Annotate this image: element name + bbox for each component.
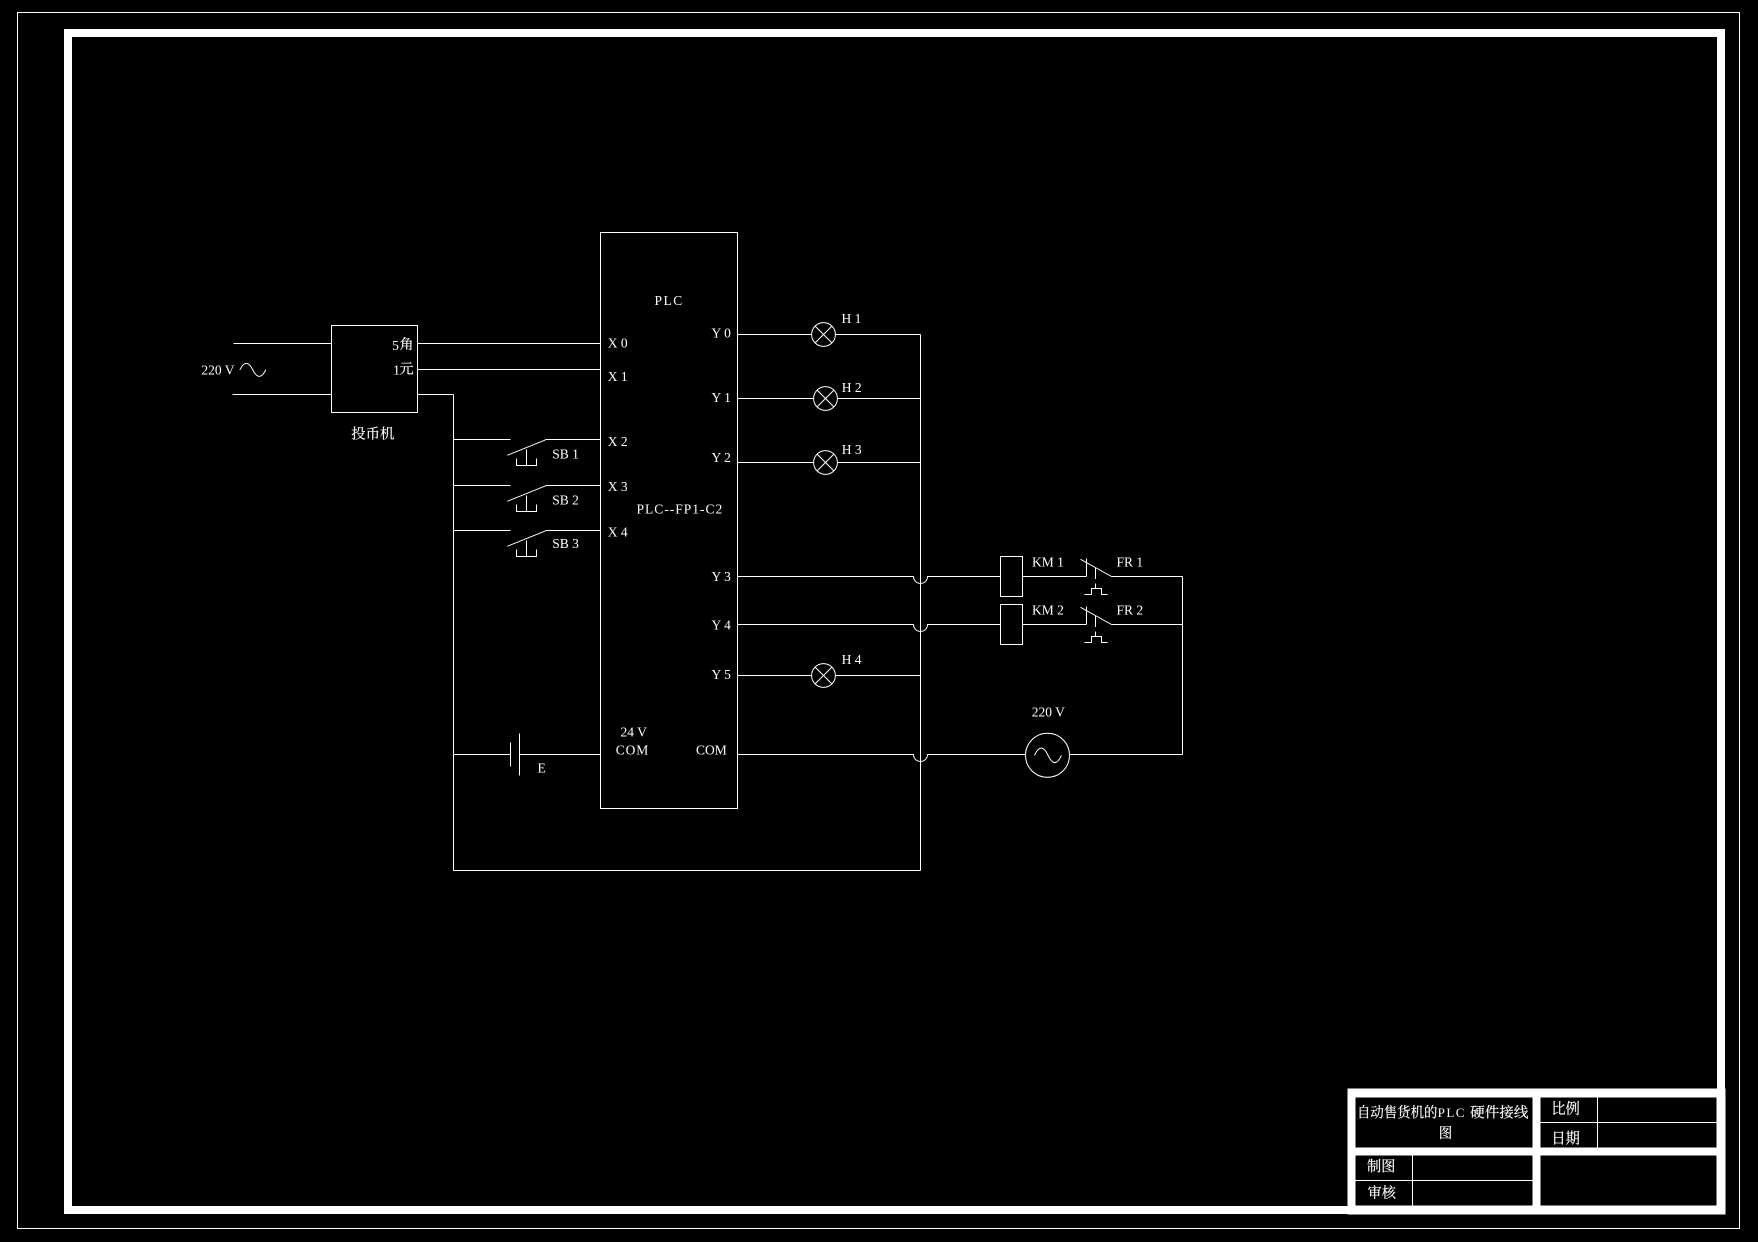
scale/date table (1541, 1098, 1717, 1148)
svg-text:Y 4: Y 4 (712, 617, 732, 632)
empty info cell (1541, 1156, 1717, 1206)
svg-text:H 3: H 3 (842, 442, 862, 457)
svg-text:SB 2: SB 2 (552, 492, 579, 507)
wire 1元 output to pin X1 (418, 369, 601, 371)
wire left bus to battery (454, 754, 511, 756)
battery E plates (511, 734, 520, 776)
svg-text:H 2: H 2 (842, 380, 862, 395)
wire coin machine bottom to left bus (418, 394, 454, 396)
svg-text:COM: COM (696, 743, 727, 758)
svg-text:KM 1: KM 1 (1032, 554, 1064, 569)
svg-text:5: 5 (392, 338, 399, 353)
label 审核 (1368, 1185, 1395, 1199)
sine symbol (left mains source) (240, 363, 266, 376)
contactor coil KM2 (1001, 605, 1023, 645)
wire FR1 to right rail (1112, 576, 1183, 578)
svg-text:Y 2: Y 2 (712, 450, 731, 465)
svg-text:H 4: H 4 (842, 652, 862, 667)
wire Y3 to contactor KM1 (hops right bus) (738, 577, 1001, 584)
drawn/checked table (1356, 1156, 1533, 1206)
wire AC source to right rail (1070, 754, 1183, 756)
svg-text:PLC: PLC (1438, 1105, 1466, 1120)
right rail wire FR1/FR2 down to AC line (1182, 577, 1184, 755)
coin machine box 投币机 (332, 326, 418, 413)
wire FR2 to right rail (1112, 624, 1183, 626)
svg-text:Y 0: Y 0 (712, 326, 732, 341)
left vertical bus wire (453, 395, 455, 871)
pushbutton switch SB1 (454, 440, 601, 466)
label 比例 (1553, 1101, 1579, 1115)
wire Y2 to lamp H3 (738, 462, 814, 464)
svg-text:E: E (538, 761, 546, 776)
svg-text:X 0: X 0 (608, 336, 628, 351)
svg-text:PLC--FP1-C2: PLC--FP1-C2 (637, 501, 724, 516)
svg-text:220 V: 220 V (201, 363, 234, 378)
wire 220V bottom lead to coin machine (233, 394, 332, 396)
wire Y1 to lamp H2 (738, 398, 814, 400)
AC source 220V circle (1026, 733, 1070, 777)
title cell 自动售货机的PLC硬件接线图 (1356, 1098, 1533, 1148)
wire Y0 to lamp H1 (738, 334, 812, 336)
svg-text:24 V: 24 V (621, 724, 648, 739)
svg-text:PLC: PLC (655, 293, 684, 308)
lamp H2 (814, 387, 838, 411)
svg-text:FR 2: FR 2 (1117, 602, 1144, 617)
thermal relay contact FR2 (1081, 607, 1112, 643)
wire Y4 to contactor KM2 (hops right bus) (738, 625, 1001, 632)
wire lamp H2 to right bus (838, 398, 921, 400)
wire COM to AC source (hops right bus) (738, 755, 1026, 762)
svg-text:X 2: X 2 (608, 434, 628, 449)
pushbutton switch SB3 (454, 531, 601, 557)
thermal relay contact FR1 (1081, 559, 1112, 595)
contactor coil KM1 (1001, 557, 1023, 597)
svg-text:SB 3: SB 3 (552, 536, 579, 551)
svg-text:Y 5: Y 5 (712, 667, 732, 682)
PLC U1 box (601, 233, 738, 809)
label 投币机 (352, 427, 394, 440)
lamp H3 (814, 451, 838, 475)
wire battery to 24V COM pin (520, 754, 601, 756)
svg-text:FR 1: FR 1 (1117, 554, 1144, 569)
svg-text:H 1: H 1 (842, 311, 862, 326)
wire lamp H4 to right bus (836, 675, 921, 677)
right vertical bus wire (920, 335, 922, 871)
label 日期 (1554, 1131, 1579, 1145)
wire KM1 to FR1 (1023, 576, 1087, 578)
bottom return bus wire (454, 870, 921, 872)
svg-text:COM: COM (616, 743, 649, 758)
wire lamp H1 to right bus (836, 334, 921, 336)
svg-text:Y 3: Y 3 (712, 569, 732, 584)
wire lamp H3 to right bus (838, 462, 921, 464)
wire 5角 output to pin X0 (418, 343, 601, 345)
lamp H4 (812, 664, 836, 688)
wire Y5 to lamp H4 (738, 675, 812, 677)
svg-text:220 V: 220 V (1032, 704, 1065, 719)
svg-text:1: 1 (393, 362, 400, 377)
wire KM2 to FR2 (1023, 624, 1087, 626)
title block background (1348, 1089, 1726, 1215)
svg-text:X 4: X 4 (608, 524, 628, 539)
svg-text:Y 1: Y 1 (712, 390, 731, 405)
label 制图 (1367, 1159, 1394, 1173)
svg-text:KM 2: KM 2 (1032, 602, 1064, 617)
svg-text:X 1: X 1 (608, 369, 628, 384)
svg-text:X 3: X 3 (608, 479, 628, 494)
pushbutton switch SB2 (454, 486, 601, 512)
lamp H1 (812, 323, 836, 347)
svg-text:SB 1: SB 1 (552, 447, 579, 462)
wire 220V top lead to coin machine (234, 343, 332, 345)
